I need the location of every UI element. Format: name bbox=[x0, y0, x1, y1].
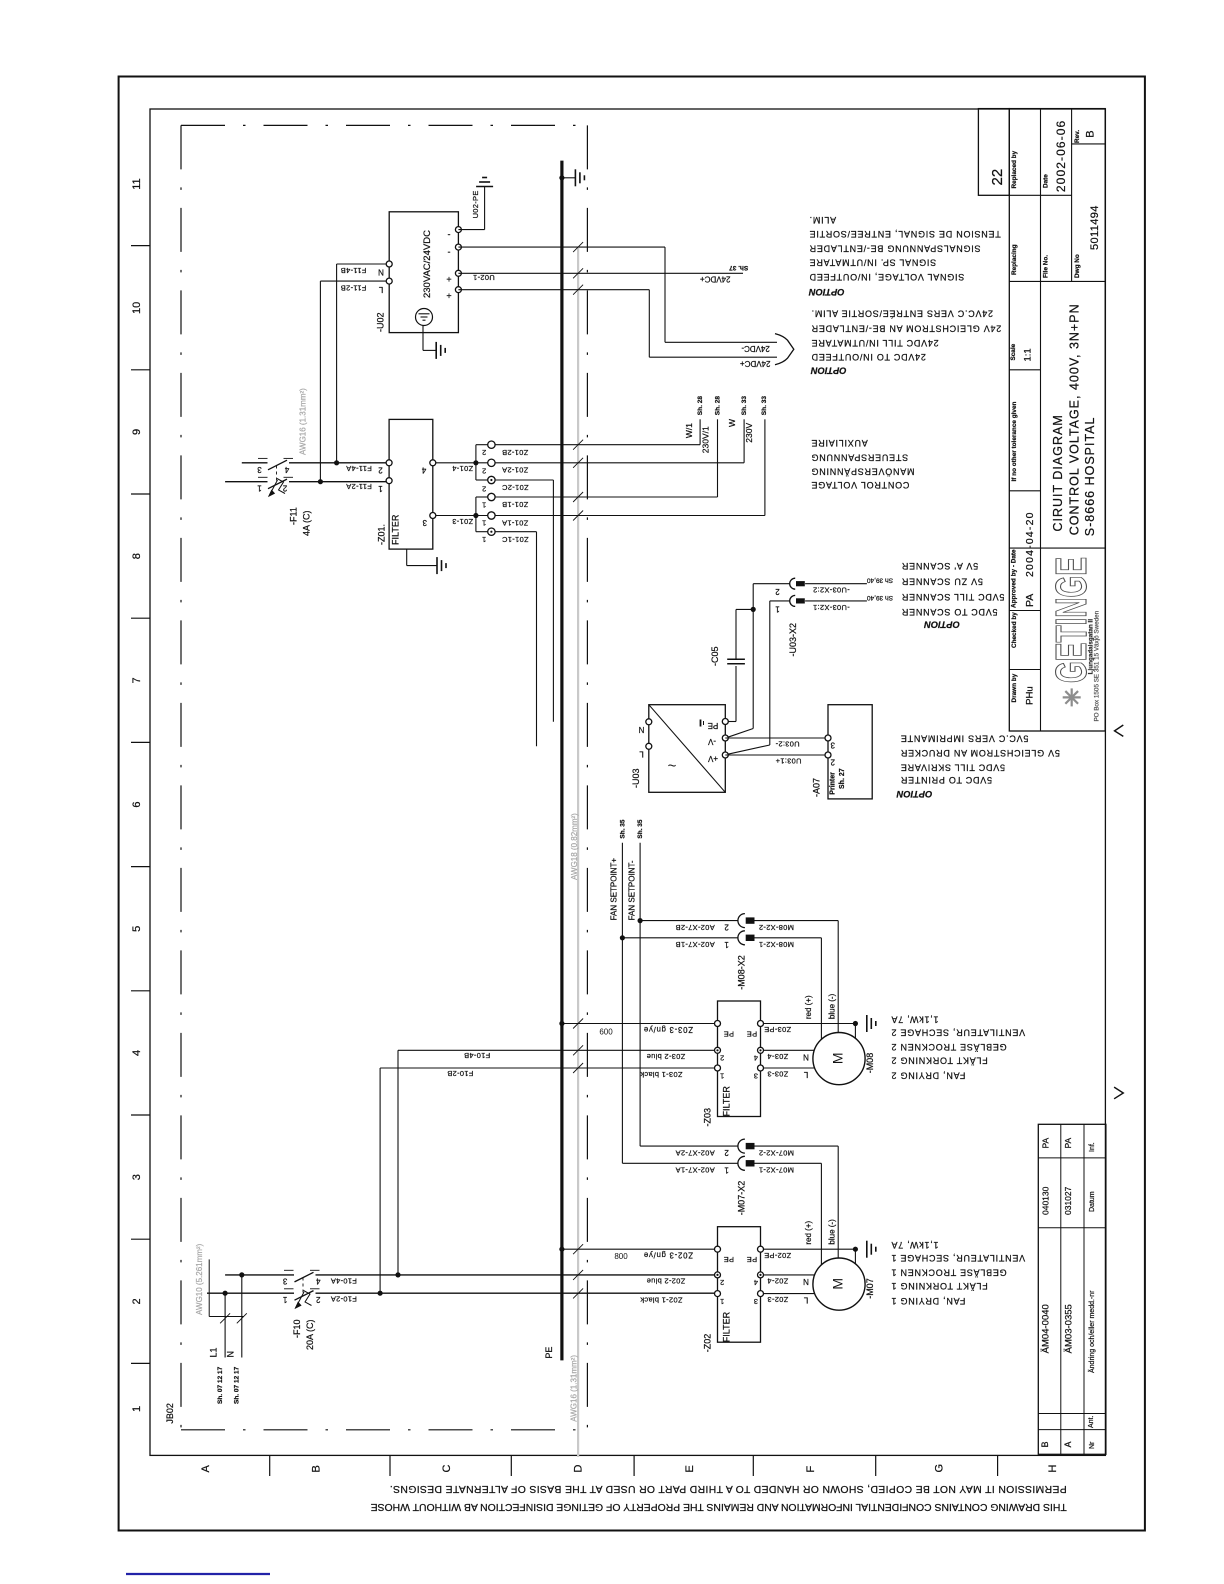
svg-text:ÄM03-0355: ÄM03-0355 bbox=[1063, 1304, 1074, 1353]
revision table lines bbox=[1038, 1157, 1106, 1159]
wire N riser bbox=[241, 1275, 243, 1358]
svg-text:22: 22 bbox=[989, 169, 1006, 186]
wire Z01-1C to U03 L bbox=[495, 531, 537, 533]
PE bus bbox=[560, 161, 563, 1361]
svg-text:FAN SETPOINT-: FAN SETPOINT- bbox=[627, 860, 636, 920]
blue wire riser M08 bbox=[837, 921, 839, 1033]
svg-text:PE: PE bbox=[747, 1029, 758, 1038]
svg-text:2: 2 bbox=[378, 466, 383, 475]
svg-text:N: N bbox=[638, 725, 644, 734]
svg-text:Z01-2B: Z01-2B bbox=[502, 448, 528, 457]
svg-text:5VDC TILL SKRIVARE: 5VDC TILL SKRIVARE bbox=[900, 763, 1005, 773]
svg-text:Z02-3 gn/ye: Z02-3 gn/ye bbox=[643, 1251, 693, 1260]
svg-text:1: 1 bbox=[282, 1295, 287, 1304]
svg-text:-U03: -U03 bbox=[631, 768, 641, 788]
connector M08-X2 row2 bbox=[640, 920, 738, 922]
wire Z01-1B to 230V/1 bbox=[495, 496, 718, 498]
svg-text:2: 2 bbox=[724, 923, 729, 932]
svg-text:red (+): red (+) bbox=[804, 1220, 813, 1244]
svg-text:Sh 39,40: Sh 39,40 bbox=[867, 577, 893, 584]
Z01 pins bbox=[386, 460, 392, 466]
U03 left pins bbox=[646, 719, 652, 725]
svg-text:THIS DRAWING CONTAINS CONFIDEN: THIS DRAWING CONTAINS CONFIDENTIAL INFOR… bbox=[371, 1501, 1067, 1512]
riser to U02 N bbox=[336, 264, 338, 463]
svg-text:5011494: 5011494 bbox=[1089, 205, 1101, 250]
svg-text:N: N bbox=[803, 1277, 809, 1286]
svg-text:Z01-1C: Z01-1C bbox=[502, 535, 529, 544]
grid column ticks bottom bbox=[269, 1455, 271, 1476]
svg-text:1: 1 bbox=[131, 1406, 143, 1412]
svg-text:Z01-3: Z01-3 bbox=[452, 517, 473, 526]
svg-text:24VDC TO IN/OUTFEED: 24VDC TO IN/OUTFEED bbox=[811, 352, 926, 362]
svg-text:-F10: -F10 bbox=[292, 1319, 302, 1338]
svg-text:3: 3 bbox=[754, 1071, 758, 1080]
svg-text:2002-06-06: 2002-06-06 bbox=[1054, 120, 1068, 192]
svg-text:Z01-1B: Z01-1B bbox=[502, 500, 528, 509]
svg-text:24VDC-: 24VDC- bbox=[741, 344, 770, 353]
svg-text:L: L bbox=[639, 750, 644, 759]
svg-text:N: N bbox=[803, 1052, 809, 1061]
svg-text:F11-2B: F11-2B bbox=[341, 284, 367, 293]
svg-text:24VDC+: 24VDC+ bbox=[740, 359, 771, 368]
svg-text:AWG18 (0.82mm²): AWG18 (0.82mm²) bbox=[570, 813, 579, 880]
svg-text:F11-4A: F11-4A bbox=[346, 464, 372, 473]
svg-text:1: 1 bbox=[482, 500, 486, 509]
svg-text:Sh. 28: Sh. 28 bbox=[697, 396, 704, 416]
svg-text:Ändring och/eller medd.-nr: Ändring och/eller medd.-nr bbox=[1088, 1290, 1096, 1373]
svg-text:1: 1 bbox=[720, 1297, 724, 1306]
svg-text:5VDC TO PRINTER: 5VDC TO PRINTER bbox=[900, 775, 992, 785]
svg-text:Approved by - Date: Approved by - Date bbox=[1010, 549, 1017, 608]
breaker F10 pole 1-2 wire bbox=[207, 1292, 294, 1294]
gray highlighter line bbox=[577, 248, 579, 1457]
svg-text:-Z03: -Z03 bbox=[703, 1108, 713, 1127]
svg-text:JB02: JB02 bbox=[165, 1403, 175, 1424]
terminal group Z01-2 bbox=[475, 445, 477, 480]
breaker F10 pole 3-4 wire bbox=[225, 1274, 294, 1276]
svg-text:PE: PE bbox=[723, 1255, 734, 1264]
sheet number cell bbox=[978, 109, 1009, 196]
svg-text:-M08: -M08 bbox=[865, 1053, 875, 1074]
svg-text:24VC.C VERS ENTRÉE/SORTIE ALIM: 24VC.C VERS ENTRÉE/SORTIE ALIM. bbox=[811, 308, 993, 318]
svg-text:Sh. 33: Sh. 33 bbox=[741, 396, 748, 416]
svg-text:040130: 040130 bbox=[1041, 1186, 1051, 1215]
svg-text:OPTION: OPTION bbox=[809, 287, 845, 297]
wire Z02 black from F10 bbox=[573, 1288, 583, 1298]
svg-text:10: 10 bbox=[131, 302, 143, 314]
svg-text:L: L bbox=[378, 285, 383, 294]
svg-text:4: 4 bbox=[131, 1050, 143, 1056]
svg-text:1: 1 bbox=[724, 1165, 729, 1174]
svg-text:Z02-PE: Z02-PE bbox=[764, 1251, 791, 1260]
svg-text:PE: PE bbox=[747, 1255, 758, 1264]
connector M08-X2 row1 bbox=[622, 937, 738, 939]
wire +V to X2:1 bbox=[728, 745, 770, 754]
svg-text:FAN, DRYING 1: FAN, DRYING 1 bbox=[891, 1296, 966, 1306]
svg-text:Dwg No: Dwg No bbox=[1074, 254, 1081, 278]
svg-text:1,1kW, 7A: 1,1kW, 7A bbox=[891, 1240, 939, 1250]
svg-text:PE: PE bbox=[544, 1347, 554, 1359]
svg-text:+: + bbox=[446, 274, 451, 284]
svg-text:2: 2 bbox=[282, 484, 287, 493]
svg-text:-Z02: -Z02 bbox=[703, 1334, 713, 1353]
svg-text:A: A bbox=[200, 1465, 212, 1473]
svg-text:CIRUIT DIAGRAM: CIRUIT DIAGRAM bbox=[1051, 414, 1065, 531]
svg-text:Sh. 27: Sh. 27 bbox=[839, 768, 846, 789]
fan setpoint+ riser bbox=[621, 843, 623, 1164]
svg-text:-M07: -M07 bbox=[865, 1278, 875, 1299]
svg-text:-M07-X2: -M07-X2 bbox=[737, 1181, 747, 1216]
svg-text:Sh. 07 12 17: Sh. 07 12 17 bbox=[234, 1366, 241, 1404]
svg-text:B: B bbox=[1084, 130, 1096, 137]
wire Z01-2B to W/1 bbox=[495, 444, 700, 446]
svg-text:1: 1 bbox=[257, 484, 262, 493]
svg-text:Z03-PE: Z03-PE bbox=[764, 1025, 791, 1034]
svg-text:-: - bbox=[448, 247, 451, 257]
svg-text:FAN, DRYING 2: FAN, DRYING 2 bbox=[891, 1070, 966, 1080]
svg-text:230V/1: 230V/1 bbox=[701, 426, 711, 453]
blue wire riser M07 bbox=[837, 1146, 839, 1258]
svg-text:4: 4 bbox=[421, 466, 426, 475]
svg-text:3: 3 bbox=[422, 518, 427, 527]
svg-text:Sh. 28: Sh. 28 bbox=[714, 396, 721, 416]
svg-text:5VDC TO SCANNER: 5VDC TO SCANNER bbox=[901, 607, 997, 617]
svg-text:AWG16 (1.31mm²): AWG16 (1.31mm²) bbox=[298, 388, 307, 455]
svg-text:E: E bbox=[684, 1465, 696, 1472]
svg-text:C: C bbox=[441, 1465, 453, 1473]
riser F10-4A to F10-4B bbox=[397, 1050, 399, 1275]
svg-text:blue (-): blue (-) bbox=[827, 1219, 836, 1245]
svg-text:Drawn by: Drawn by bbox=[1011, 673, 1018, 702]
svg-text:GEBLÄSE TROCKNEN 1: GEBLÄSE TROCKNEN 1 bbox=[891, 1268, 1007, 1278]
svg-text:230VAC/24VDC: 230VAC/24VDC bbox=[422, 230, 433, 298]
wire Z02 blue from F10 bbox=[573, 1270, 583, 1280]
svg-text:5VC.C VERS IMPRIMANTE: 5VC.C VERS IMPRIMANTE bbox=[900, 734, 1028, 744]
svg-text:PE: PE bbox=[723, 1029, 734, 1038]
svg-text:3: 3 bbox=[754, 1297, 758, 1306]
svg-text:ÄM04-0040: ÄM04-0040 bbox=[1040, 1304, 1051, 1353]
centre mark upper bbox=[1115, 725, 1124, 736]
motor M08 N L wires bbox=[764, 1049, 815, 1051]
svg-text:2: 2 bbox=[482, 448, 486, 457]
title block inner lines bbox=[1009, 194, 1071, 196]
svg-text:A02-X7-2B: A02-X7-2B bbox=[675, 923, 714, 932]
wire Z02 gn/ye to PE bus bbox=[562, 1248, 715, 1250]
printer A07 box bbox=[828, 705, 872, 799]
ground at PE bus top bbox=[559, 175, 564, 180]
U02 L wire bbox=[320, 280, 389, 282]
svg-text:Z03-3: Z03-3 bbox=[767, 1070, 788, 1079]
svg-text:G: G bbox=[933, 1464, 945, 1473]
svg-text:VENTILATEUR, SECHAGE 1: VENTILATEUR, SECHAGE 1 bbox=[891, 1253, 1025, 1263]
svg-text:1: 1 bbox=[482, 535, 486, 544]
svg-text:M07-X2-1: M07-X2-1 bbox=[759, 1166, 794, 1175]
svg-text:AWG16 (1.31mm²): AWG16 (1.31mm²) bbox=[569, 1355, 578, 1422]
svg-text:2: 2 bbox=[131, 1298, 143, 1304]
svg-text:5V A' SCANNER: 5V A' SCANNER bbox=[901, 561, 978, 571]
svg-text:M07-X2-2: M07-X2-2 bbox=[759, 1148, 794, 1157]
svg-text:24VDC+: 24VDC+ bbox=[700, 275, 731, 284]
svg-text:M: M bbox=[830, 1052, 846, 1064]
svg-text:Z01-2C: Z01-2C bbox=[502, 483, 529, 492]
brace to option 24VDC bbox=[775, 334, 794, 365]
svg-text:F: F bbox=[805, 1466, 817, 1473]
Z02 pins bbox=[715, 1246, 721, 1252]
svg-text:Checked by: Checked by bbox=[1011, 612, 1018, 648]
wire Z03 gn/ye to PE bus bbox=[562, 1023, 715, 1025]
svg-text:PHu: PHu bbox=[1024, 686, 1035, 704]
enclosure JB02 dash-dot boundary bbox=[181, 124, 587, 126]
wire L1 riser bbox=[224, 1293, 226, 1357]
svg-text:800: 800 bbox=[614, 1252, 628, 1261]
svg-text:SIGNAL SP. IN/UTMATARE: SIGNAL SP. IN/UTMATARE bbox=[809, 257, 936, 267]
svg-text:F11-2A: F11-2A bbox=[346, 482, 372, 491]
svg-text:Scale: Scale bbox=[1010, 343, 1017, 360]
svg-text:blue (-): blue (-) bbox=[827, 993, 836, 1019]
Z03 pins bbox=[715, 1021, 721, 1027]
svg-text:PA: PA bbox=[1024, 594, 1036, 607]
svg-text:Printer: Printer bbox=[829, 772, 836, 795]
svg-text:2: 2 bbox=[830, 758, 835, 767]
U02 N wire bbox=[337, 263, 390, 265]
terminal group Z01-1 bbox=[475, 497, 477, 532]
svg-text:7: 7 bbox=[131, 677, 143, 683]
svg-text:5VDC TILL SCANNER: 5VDC TILL SCANNER bbox=[901, 592, 1004, 602]
svg-text:S-8666 HOSPITAL: S-8666 HOSPITAL bbox=[1083, 417, 1097, 537]
svg-text:FLÄKT TORKNING 1: FLÄKT TORKNING 1 bbox=[891, 1281, 988, 1291]
wire Z01-1A to 230V bbox=[495, 515, 765, 517]
drawing frame bbox=[150, 109, 1105, 1455]
svg-text:OPTION: OPTION bbox=[811, 365, 847, 375]
svg-text:If no other tolerance given: If no other tolerance given bbox=[1011, 402, 1018, 482]
svg-text:AUXILIAIRE: AUXILIAIRE bbox=[811, 438, 868, 448]
svg-text:1: 1 bbox=[724, 940, 729, 949]
svg-text:Z03-3 gn/ye: Z03-3 gn/ye bbox=[643, 1025, 693, 1034]
svg-text:031027: 031027 bbox=[1063, 1186, 1073, 1215]
svg-text:Z02-3: Z02-3 bbox=[767, 1295, 788, 1304]
red wire riser M08 bbox=[820, 938, 822, 1040]
wire Z01-4 bbox=[436, 462, 488, 464]
svg-text:5: 5 bbox=[131, 926, 143, 932]
A07 pins bbox=[825, 735, 831, 741]
svg-text:24V GLEICHSTROM AN BE-/ENTLADE: 24V GLEICHSTROM AN BE-/ENTLADER bbox=[811, 323, 1001, 333]
wire U02-PE to ground bbox=[458, 229, 484, 231]
wire Z02-PE to motor ground bbox=[764, 1248, 856, 1250]
svg-text:PA: PA bbox=[1041, 1137, 1051, 1148]
svg-text:8: 8 bbox=[131, 553, 143, 559]
svg-text:2: 2 bbox=[316, 1295, 321, 1304]
svg-text:red (+): red (+) bbox=[804, 995, 813, 1019]
svg-text:STEUERSPANNUNG: STEUERSPANNUNG bbox=[811, 452, 908, 462]
svg-text:U03:1+: U03:1+ bbox=[775, 757, 802, 766]
power supply U02 box bbox=[389, 212, 458, 333]
svg-text:Sh. 35: Sh. 35 bbox=[637, 819, 644, 839]
svg-text:TENSION DE SIGNAL, ENTREE/SORT: TENSION DE SIGNAL, ENTREE/SORTIE bbox=[809, 229, 1001, 239]
svg-text:CONTROL VOLTAGE, 400V, 3N+PN: CONTROL VOLTAGE, 400V, 3N+PN bbox=[1067, 303, 1081, 535]
svg-text:U02-1: U02-1 bbox=[473, 273, 495, 282]
svg-text:24VDC TILL IN/UTMATARE: 24VDC TILL IN/UTMATARE bbox=[811, 338, 939, 348]
wire Z01-2A to W bbox=[495, 462, 744, 464]
red wire riser M07 bbox=[820, 1163, 822, 1265]
title block outline bbox=[1009, 109, 1105, 731]
svg-text:F11-4B: F11-4B bbox=[341, 266, 367, 275]
page border bbox=[119, 77, 1145, 1531]
centre mark lower bbox=[1114, 1087, 1123, 1099]
connector U03-X2:1 bbox=[770, 600, 790, 602]
svg-text:+: + bbox=[446, 290, 451, 300]
getinge logo snowflake bbox=[1063, 696, 1081, 698]
svg-text:-M08-X2: -M08-X2 bbox=[737, 955, 747, 990]
svg-text:A02-X7-2A: A02-X7-2A bbox=[675, 1148, 714, 1157]
svg-text:Ant.: Ant. bbox=[1088, 1415, 1095, 1428]
svg-text:W: W bbox=[727, 419, 737, 427]
svg-text:Sh. 37: Sh. 37 bbox=[729, 264, 749, 271]
svg-text:A: A bbox=[1063, 1441, 1073, 1447]
svg-text:3: 3 bbox=[131, 1174, 143, 1180]
svg-text:5V GLEICHSTROM AN DRUCKER: 5V GLEICHSTROM AN DRUCKER bbox=[900, 748, 1060, 758]
U03 right pins bbox=[722, 719, 728, 725]
blue scan mark bbox=[126, 1573, 270, 1575]
wire Z03-PE to motor ground bbox=[764, 1023, 856, 1025]
svg-text:B: B bbox=[311, 1465, 323, 1472]
svg-text:FILTER: FILTER bbox=[391, 514, 401, 545]
svg-text:ALIM.: ALIM. bbox=[809, 215, 836, 225]
svg-text:FLÄKT TORKNING 2: FLÄKT TORKNING 2 bbox=[891, 1055, 988, 1065]
breaker F10 contacts bbox=[284, 1269, 294, 1271]
svg-text:FILTER: FILTER bbox=[722, 1086, 732, 1117]
grid row ticks left bbox=[131, 245, 150, 247]
svg-text:1: 1 bbox=[775, 605, 780, 614]
connector U03-X2:2 bbox=[753, 583, 790, 585]
svg-text:L: L bbox=[803, 1296, 808, 1305]
svg-text:U02-PE: U02-PE bbox=[471, 190, 480, 218]
svg-text:AWG10 (5.261mm²): AWG10 (5.261mm²) bbox=[195, 1243, 204, 1315]
svg-text:PA: PA bbox=[1063, 1137, 1073, 1148]
filter Z03 box bbox=[718, 1001, 761, 1117]
motor M08 bbox=[813, 1033, 865, 1085]
svg-text:1: 1 bbox=[378, 484, 383, 493]
svg-text:A02-X7-1B: A02-X7-1B bbox=[675, 940, 714, 949]
svg-text:-: - bbox=[448, 230, 451, 240]
svg-text:Nr: Nr bbox=[1089, 1441, 1096, 1449]
svg-text:M08-X2-2: M08-X2-2 bbox=[759, 923, 794, 932]
wire Z03 black F10-2B bbox=[380, 1067, 714, 1069]
capacitor C05 bbox=[727, 658, 745, 660]
svg-text:2: 2 bbox=[775, 587, 780, 596]
svg-text:SIGNALSPANNUNG BE-/ENTLADER: SIGNALSPANNUNG BE-/ENTLADER bbox=[809, 243, 981, 253]
svg-text:W/1: W/1 bbox=[684, 423, 694, 438]
svg-text:Sh. 35: Sh. 35 bbox=[619, 819, 626, 839]
svg-text:GEBLÄSE TROCKNEN 2: GEBLÄSE TROCKNEN 2 bbox=[891, 1042, 1007, 1052]
converter U03 box bbox=[649, 705, 726, 793]
svg-text:3: 3 bbox=[282, 1277, 287, 1286]
U02 right pins bbox=[455, 227, 461, 233]
svg-text:SIGNAL VOLTAGE, IN/OUTFEED: SIGNAL VOLTAGE, IN/OUTFEED bbox=[809, 272, 964, 282]
svg-text:1,1kW, 7A: 1,1kW, 7A bbox=[891, 1014, 939, 1024]
svg-text:B: B bbox=[1040, 1441, 1050, 1447]
svg-text:Z01-2A: Z01-2A bbox=[502, 466, 528, 475]
svg-text:3: 3 bbox=[257, 465, 262, 474]
svg-text:Sh. 07 12 17: Sh. 07 12 17 bbox=[217, 1366, 224, 1404]
wire Z01-3 bbox=[436, 515, 488, 517]
svg-text:Z03-2 blue: Z03-2 blue bbox=[646, 1052, 685, 1061]
svg-text:D: D bbox=[573, 1465, 585, 1473]
svg-text:1: 1 bbox=[482, 518, 486, 527]
svg-text:MANÖVERSPÄNNING: MANÖVERSPÄNNING bbox=[811, 467, 915, 477]
svg-text:11: 11 bbox=[131, 178, 143, 189]
revision table outline bbox=[1038, 1124, 1106, 1454]
motor M07 bbox=[813, 1258, 865, 1310]
svg-text:2: 2 bbox=[724, 1148, 729, 1157]
svg-text:Z02-1 black: Z02-1 black bbox=[640, 1295, 683, 1304]
svg-text:File No.: File No. bbox=[1043, 255, 1050, 278]
svg-text:Inf.: Inf. bbox=[1089, 1142, 1096, 1152]
svg-text:U03:2-: U03:2- bbox=[775, 739, 800, 748]
svg-text:5V ZU SCANNER: 5V ZU SCANNER bbox=[901, 576, 983, 586]
svg-text:FILTER: FILTER bbox=[722, 1311, 732, 1342]
svg-text:F10-2A: F10-2A bbox=[331, 1295, 357, 1304]
svg-text:FAN SETPOINT+: FAN SETPOINT+ bbox=[609, 858, 618, 921]
svg-text:4: 4 bbox=[754, 1054, 758, 1063]
svg-text:-A07: -A07 bbox=[812, 778, 822, 797]
svg-text:F10-2B: F10-2B bbox=[447, 1069, 473, 1078]
svg-text:OPTION: OPTION bbox=[896, 789, 932, 799]
svg-text:Z01-4: Z01-4 bbox=[452, 464, 473, 473]
svg-text:~: ~ bbox=[668, 758, 677, 775]
wire U02-1 24VDC+ to Sh37 bbox=[458, 272, 743, 274]
filter Z02 box bbox=[718, 1227, 761, 1343]
U02 internal ground bbox=[422, 326, 424, 351]
svg-text:-C05: -C05 bbox=[710, 646, 720, 666]
wire U02 minus to 24VDC- bbox=[458, 246, 665, 248]
svg-text:2004-04-20: 2004-04-20 bbox=[1024, 511, 1036, 577]
svg-text:-U02: -U02 bbox=[376, 312, 386, 332]
svg-text:4A (C): 4A (C) bbox=[302, 510, 312, 536]
svg-text:N: N bbox=[226, 1351, 236, 1358]
connector M07-X2 row1 bbox=[622, 1162, 738, 1164]
svg-text:N: N bbox=[378, 268, 384, 277]
svg-text:L1: L1 bbox=[209, 1347, 219, 1357]
svg-text:600: 600 bbox=[599, 1028, 613, 1037]
wire -V to X2:2 bbox=[728, 729, 753, 738]
svg-text:Z02-4: Z02-4 bbox=[767, 1276, 788, 1285]
svg-text:OPTION: OPTION bbox=[924, 620, 960, 630]
svg-text:Sh 39,40: Sh 39,40 bbox=[867, 594, 893, 601]
U03 PE pin label bbox=[700, 720, 702, 727]
wire Z01-2C to U03 N bbox=[495, 479, 554, 481]
svg-text:Replaced by: Replaced by bbox=[1011, 150, 1018, 188]
svg-text:L: L bbox=[803, 1070, 808, 1079]
svg-text:VENTILATEUR, SECHAGE 2: VENTILATEUR, SECHAGE 2 bbox=[891, 1028, 1025, 1038]
svg-text:Z03-1 black: Z03-1 black bbox=[640, 1070, 683, 1079]
svg-text:-F11: -F11 bbox=[289, 507, 299, 525]
svg-text:Z03-4: Z03-4 bbox=[767, 1052, 788, 1061]
svg-text:4: 4 bbox=[316, 1277, 321, 1286]
cable bracket AWG10 bbox=[209, 1316, 243, 1318]
svg-text:F10-4A: F10-4A bbox=[331, 1276, 357, 1285]
svg-text:4: 4 bbox=[754, 1278, 758, 1287]
riser F10-2A to F10-2B bbox=[379, 1068, 381, 1293]
svg-text:2: 2 bbox=[482, 484, 486, 493]
svg-text:-U03-X2:2: -U03-X2:2 bbox=[813, 586, 850, 595]
svg-text:PE: PE bbox=[708, 721, 719, 730]
svg-text:1: 1 bbox=[720, 1071, 724, 1080]
connector M07-X2 row2 bbox=[640, 1145, 738, 1147]
svg-text:6: 6 bbox=[131, 802, 143, 808]
svg-text:Z01-1A: Z01-1A bbox=[502, 519, 528, 528]
svg-text:-U03-X2:1: -U03-X2:1 bbox=[813, 603, 850, 612]
filter Z01 box bbox=[389, 419, 433, 549]
